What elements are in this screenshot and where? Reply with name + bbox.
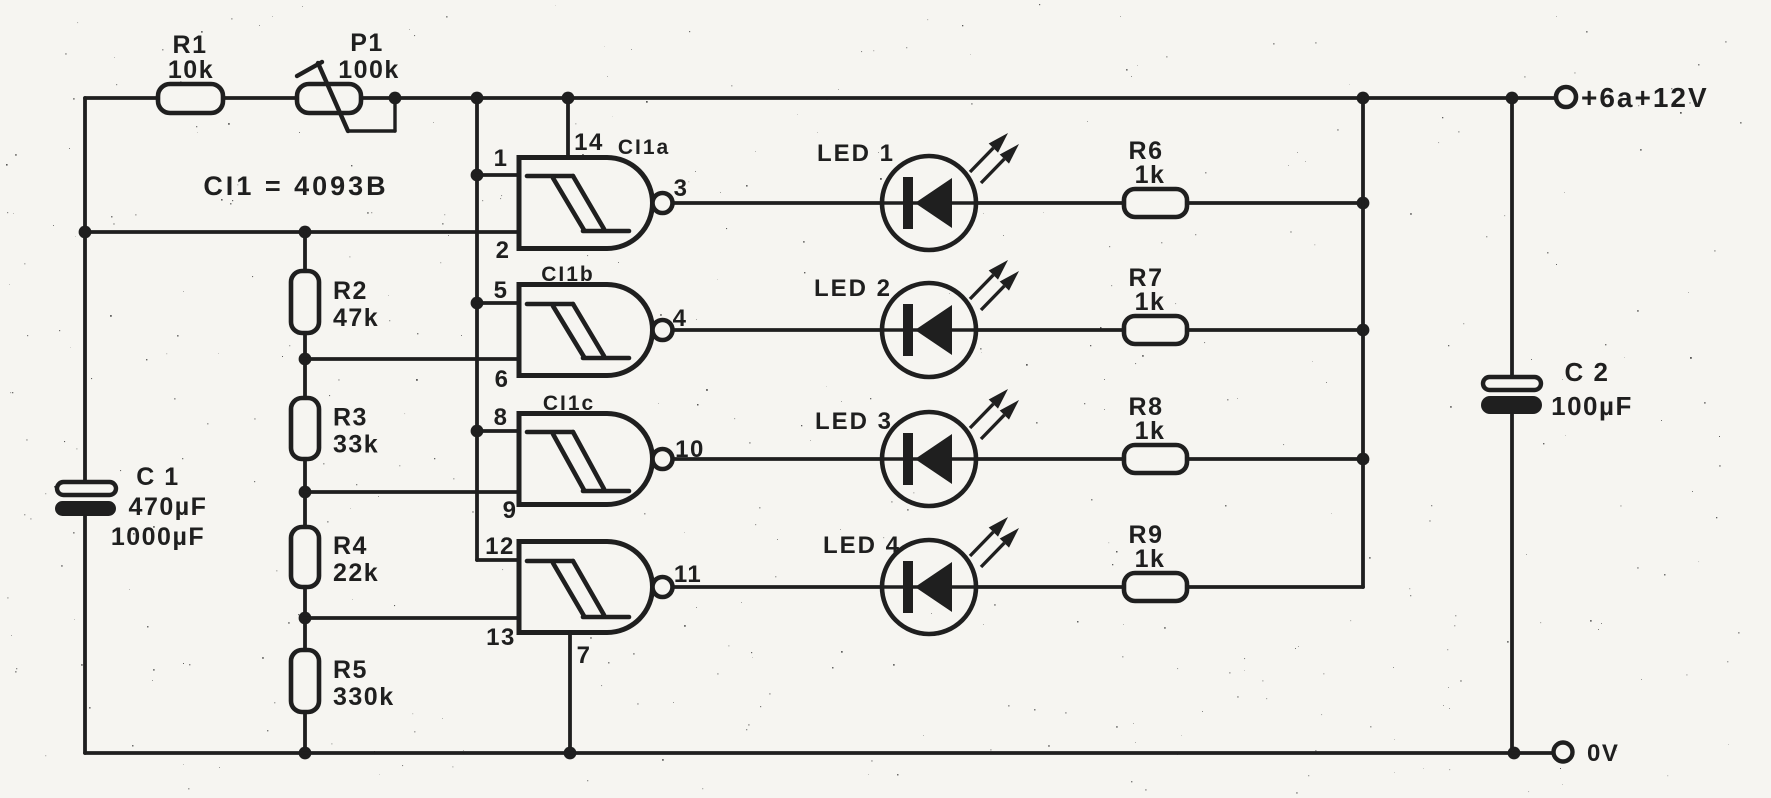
junction: tap below R3 — [299, 486, 312, 499]
wire: chain lead below R2 — [303, 333, 307, 359]
junction: pin14 / top rail — [562, 92, 575, 105]
svg-text:22k: 22k — [333, 559, 379, 587]
resistor R5 330k — [291, 650, 395, 712]
wire: chain lead above R3 — [303, 359, 307, 398]
svg-text:2: 2 — [496, 237, 511, 264]
label: pin 7 — [577, 642, 592, 669]
resistor R2 47k — [291, 271, 379, 333]
label: pin 10 — [675, 436, 705, 463]
wire: chain lead above R4 — [303, 492, 307, 527]
svg-text:9: 9 — [503, 497, 518, 524]
junction: input bus / pin 8 — [471, 425, 484, 438]
svg-text:100k: 100k — [338, 56, 400, 84]
junction: tap below R4 — [299, 612, 312, 625]
svg-text:R1: R1 — [173, 31, 208, 59]
wire: +V top rail left segment — [85, 96, 158, 100]
svg-text:1k: 1k — [1135, 545, 1166, 573]
junction: input bus / top rail — [471, 92, 484, 105]
wire: LED1 to R6 — [976, 201, 1124, 205]
svg-text:LED 2: LED 2 — [814, 275, 892, 302]
wire: P1 wiper to top rail — [348, 98, 395, 131]
svg-text:C 1: C 1 — [136, 463, 179, 491]
terminal: 0V — [1554, 740, 1620, 767]
label: LED2 — [814, 275, 892, 302]
node: output bubble pin 10 — [653, 449, 673, 469]
capacitor C1 470uF / 1000uF — [55, 463, 207, 551]
op-amp gate U1c NAND Schmitt CI1c — [519, 414, 653, 505]
label: pin 2 — [496, 237, 511, 264]
svg-text:P1: P1 — [350, 29, 384, 57]
junction: R7 / right bus — [1357, 324, 1370, 337]
wire: chain lead above R5 — [303, 618, 307, 650]
resistor R1 10k — [158, 31, 223, 113]
potentiometer P1 100k — [297, 29, 400, 131]
label: pin 9 — [503, 497, 518, 524]
node: output bubble pin 4 — [653, 320, 673, 340]
wire: top rail from P1 to +V terminal — [361, 96, 1555, 100]
wire: 0V bottom rail — [85, 751, 1553, 755]
wire: input bus vertical (pins 1,5,8,12) — [475, 98, 479, 560]
label: pin 3 — [674, 175, 689, 202]
junction: R2 top / pin2 line — [299, 226, 312, 239]
wire: pin 14 supply to gate CI1a — [566, 98, 570, 158]
junction: R5 / 0V rail — [299, 747, 312, 760]
label: gate name CI1a — [618, 136, 670, 159]
wire: gate output row 3 to LED3 — [673, 457, 883, 461]
wire: pin 13 input from divider tap — [305, 616, 519, 620]
svg-text:10k: 10k — [168, 56, 214, 84]
wire: R8 to right bus — [1187, 457, 1363, 461]
svg-text:1000µF: 1000µF — [111, 523, 205, 551]
svg-text:+6a+12V: +6a+12V — [1581, 82, 1709, 113]
wire: chain lead R5 to 0V rail — [303, 712, 307, 753]
label: LED1 — [817, 140, 895, 167]
label: CI1 = 4093B — [203, 171, 388, 201]
svg-text:11: 11 — [674, 561, 702, 588]
junction: R8 / right bus — [1357, 453, 1370, 466]
wire: gate output row 4 to LED4 — [673, 585, 883, 589]
svg-text:1k: 1k — [1135, 288, 1166, 316]
label: pin 5 — [494, 277, 509, 304]
junction: R6 / right bus — [1357, 197, 1370, 210]
wire: C2 branch lower — [1510, 414, 1514, 753]
wire: chain lead below R4 — [303, 587, 307, 618]
svg-text:330k: 330k — [333, 683, 395, 711]
op-amp gate U1b NAND Schmitt CI1b — [519, 285, 653, 376]
wire: R9 to right bus — [1187, 585, 1363, 589]
label: pin 8 — [494, 404, 509, 431]
wire: left vertical branch lower — [83, 516, 87, 753]
svg-text:LED 4: LED 4 — [823, 532, 901, 559]
wire: gate output row 2 to LED2 — [673, 328, 883, 332]
svg-text:7: 7 — [577, 642, 592, 669]
resistor R7 1k — [1124, 264, 1187, 344]
svg-text:R5: R5 — [333, 656, 368, 684]
wire: pin 7 ground from gate CI1d — [568, 633, 572, 754]
LED4 — [882, 517, 1019, 634]
junction: left branch / pin2 line — [79, 226, 92, 239]
node: output bubble pin 3 — [653, 193, 673, 213]
wire: pin 8 input — [477, 429, 519, 433]
svg-text:33k: 33k — [333, 431, 379, 459]
junction: input bus / pin 5 — [471, 297, 484, 310]
LED2 — [882, 260, 1019, 377]
label: LED4 — [823, 532, 901, 559]
op-amp gate U1a NAND Schmitt CI1a — [519, 158, 653, 249]
wire: right bus vertical (R6-R9 common) — [1361, 98, 1365, 587]
resistor R8 1k — [1124, 393, 1187, 473]
svg-text:3: 3 — [674, 175, 689, 202]
junction: tap below R2 — [299, 353, 312, 366]
wire: chain lead above R2 — [303, 232, 307, 271]
wire: C2 branch upper — [1510, 98, 1514, 377]
junction: C2 branch / 0V rail — [1508, 747, 1521, 760]
resistor R3 33k — [291, 398, 379, 459]
wire: pin 12 input — [477, 558, 519, 562]
svg-text:100µF: 100µF — [1551, 391, 1633, 421]
wire: gate output row 1 to LED1 — [673, 201, 883, 205]
svg-text:CI1 = 4093B: CI1 = 4093B — [203, 171, 388, 201]
junction: input bus / pin 1 — [471, 169, 484, 182]
resistor R9 1k — [1124, 521, 1187, 601]
svg-text:LED 1: LED 1 — [817, 140, 895, 167]
svg-text:1k: 1k — [1135, 161, 1166, 189]
svg-text:R4: R4 — [333, 532, 368, 560]
label: pin 4 — [673, 305, 688, 332]
junction: C2 branch / top rail — [1506, 92, 1519, 105]
wire: LED4 to R9 — [976, 585, 1124, 589]
svg-text:LED 3: LED 3 — [815, 408, 893, 435]
terminal: +6 a +12V supply — [1556, 82, 1709, 113]
resistor R4 22k — [291, 527, 379, 587]
wire: pin 5 input — [477, 301, 519, 305]
junction: wiper / top rail — [389, 92, 402, 105]
svg-text:5: 5 — [494, 277, 509, 304]
label: LED3 — [815, 408, 893, 435]
label: gate name CI1c — [543, 392, 595, 415]
wire: pin 6 input from divider tap — [305, 357, 519, 361]
wire: left vertical branch upper — [83, 98, 87, 482]
wire: chain lead below R3 — [303, 459, 307, 492]
wire: LED2 to R7 — [976, 328, 1124, 332]
label: pin 13 — [486, 624, 516, 651]
svg-text:0V: 0V — [1587, 740, 1619, 767]
label: gate name CI1b — [541, 263, 595, 286]
wire: pin 1 input — [477, 173, 519, 177]
svg-text:12: 12 — [485, 533, 515, 560]
svg-text:CI1c: CI1c — [543, 392, 595, 415]
junction: R6-R9 bus / top rail — [1357, 92, 1370, 105]
svg-text:8: 8 — [494, 404, 509, 431]
svg-text:13: 13 — [486, 624, 516, 651]
label: pin 14 — [574, 129, 604, 156]
svg-text:47k: 47k — [333, 304, 379, 332]
label: pin 1 — [494, 145, 509, 172]
svg-text:R2: R2 — [333, 277, 368, 305]
label: pin 12 — [485, 533, 515, 560]
svg-text:470µF: 470µF — [129, 493, 208, 521]
label: pin 6 — [495, 366, 510, 393]
svg-text:C 2: C 2 — [1565, 357, 1610, 387]
capacitor C2 100uF — [1481, 357, 1633, 421]
svg-text:4: 4 — [673, 305, 688, 332]
svg-text:1k: 1k — [1135, 417, 1166, 445]
wire: pin 9 input from divider tap — [305, 490, 519, 494]
wire: LED3 to R8 — [976, 457, 1124, 461]
svg-text:R3: R3 — [333, 404, 368, 432]
LED3 — [882, 389, 1019, 506]
wire: top rail between R1 and P1 — [223, 96, 297, 100]
svg-text:1: 1 — [494, 145, 509, 172]
svg-text:CI1b: CI1b — [541, 263, 595, 286]
junction: pin 7 / 0V rail — [564, 747, 577, 760]
LED1 — [882, 133, 1019, 250]
resistor R6 1k — [1124, 137, 1187, 217]
svg-text:CI1a: CI1a — [618, 136, 670, 159]
wire: R7 to right bus — [1187, 328, 1363, 332]
svg-text:14: 14 — [574, 129, 604, 156]
wire: node pin2 feedback line — [85, 230, 519, 234]
op-amp gate U1d NAND Schmitt CI1d — [519, 542, 653, 633]
node: output bubble pin 11 — [653, 577, 673, 597]
wire: R6 to right bus — [1187, 201, 1363, 205]
svg-text:6: 6 — [495, 366, 510, 393]
label: pin 11 — [674, 561, 702, 588]
